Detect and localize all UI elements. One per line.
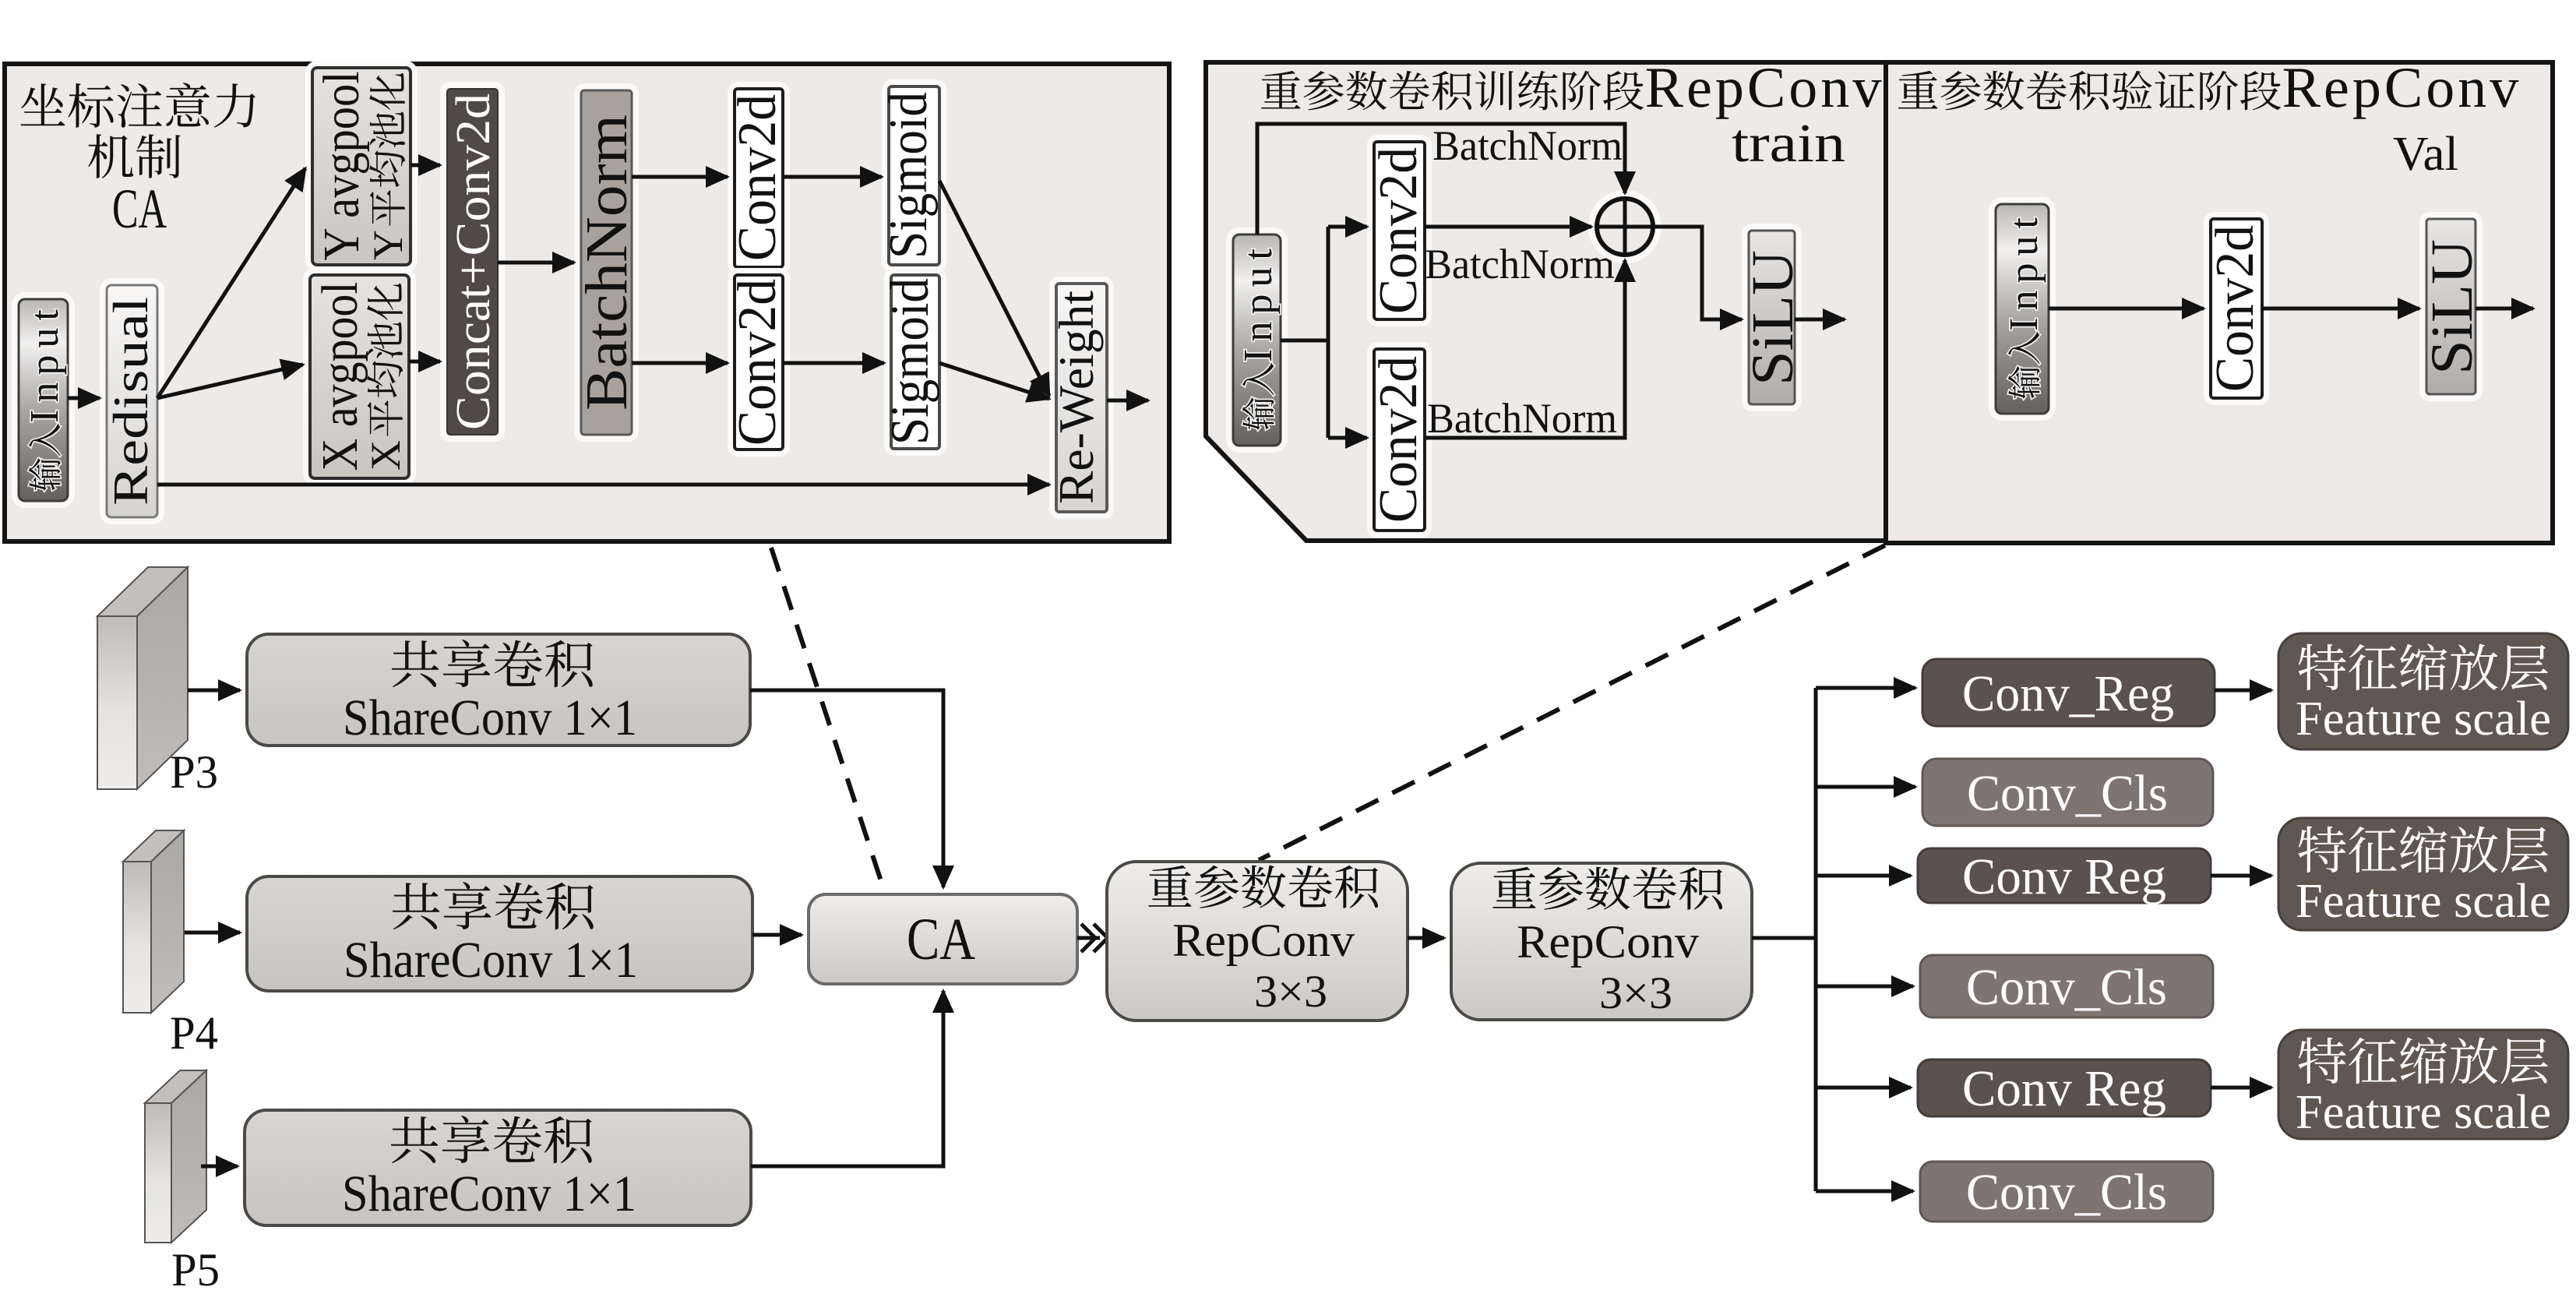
svg-text:BatchNorm: BatchNorm (1432, 122, 1623, 169)
svg-text:Re-Weight: Re-Weight (1048, 291, 1104, 504)
svg-text:Redisual: Redisual (103, 297, 158, 506)
box Conv2d bottom (CA panel) (731, 271, 787, 453)
svg-text:Y avgpool: Y avgpool (313, 72, 370, 261)
box Conv2d (val) (2207, 215, 2266, 402)
adder circle plus (1591, 193, 1658, 260)
wire Re-Weight output (1107, 399, 1148, 403)
box Conv2d bottom (train) (1370, 345, 1429, 534)
wire branch to Conv Reg 3 (1816, 1086, 1911, 1090)
wire ConvReg3 to Feature3 (2211, 1086, 2271, 1090)
box ShareConv 3 (245, 1110, 751, 1225)
box CA (809, 894, 1077, 984)
box RepConv 3x3 second (1451, 863, 1752, 1020)
wire branch to Conv_Cls 3 (1816, 1190, 1913, 1193)
svg-text:Conv2d: Conv2d (728, 94, 788, 261)
svg-text:Concat+Conv2d: Concat+Conv2d (447, 93, 500, 430)
wire Sigmoid top to Re-Weight (939, 181, 1049, 396)
box SiLU (train) (1745, 227, 1799, 408)
title 机制 (88, 134, 181, 178)
wire ShareConv3 to CA bottom (751, 991, 943, 1166)
wire branch to Conv Reg 2 (1816, 874, 1911, 878)
wire branch vertical (1327, 227, 1330, 438)
wire Conv2d top to adder (1425, 225, 1591, 229)
box Feature scale 1 (2278, 633, 2568, 749)
svg-text:BatchNorm: BatchNorm (1427, 395, 1617, 442)
box Feature scale 2 (2278, 818, 2568, 930)
svg-text:P3: P3 (170, 746, 218, 798)
svg-text:Val: Val (2393, 128, 2458, 181)
svg-text:P5: P5 (171, 1244, 220, 1296)
box RepConv 3x3 first (1107, 862, 1408, 1021)
wire P5 to ShareConv3 (201, 1165, 238, 1169)
svg-text:Conv_Cls: Conv_Cls (1966, 1164, 2167, 1221)
wire branch to Conv2d bottom (1328, 436, 1367, 440)
box BatchNorm (CA panel) (577, 86, 636, 439)
wire Input branch stub (1281, 339, 1328, 343)
wire CA to RepConv1 double chevron (1077, 936, 1100, 940)
wire X avgpool to Concat (409, 360, 440, 364)
wire RepConv1 to RepConv2 (1408, 936, 1444, 940)
wire BatchNorm to Conv2d top (632, 175, 728, 179)
box Concat+Conv2d (443, 85, 502, 439)
box ShareConv 1 (247, 634, 750, 746)
svg-text:ShareConv 1×1: ShareConv 1×1 (343, 689, 637, 746)
wire P3 to ShareConv1 (188, 689, 240, 693)
box Input (CA panel) (15, 295, 72, 505)
wire Sigmoid bottom to Re-Weight (939, 363, 1049, 399)
wire branch to Conv_Reg 1 (1816, 686, 1915, 690)
box Conv_Cls 3 (1920, 1162, 2213, 1222)
svg-text:Conv_Cls: Conv_Cls (1966, 959, 2167, 1016)
box Input (val) (1992, 200, 2053, 418)
wire trunk vertical (1814, 688, 1818, 1191)
svg-text:RepConv: RepConv (1517, 916, 1699, 968)
panel: RepConv train frame (1206, 62, 1886, 541)
box Conv2d top (CA panel) (731, 85, 787, 271)
box Re-Weight (1052, 280, 1111, 516)
wire Redisual to Y avgpool (157, 168, 305, 398)
svg-text:Feature scale: Feature scale (2296, 1086, 2551, 1139)
box Redisual (103, 281, 161, 521)
wire branch to Conv2d top (1328, 225, 1367, 229)
wire ShareConv2 to CA left (752, 933, 802, 937)
svg-text:RepConv: RepConv (1172, 915, 1355, 966)
box Feature scale 3 (2278, 1030, 2568, 1139)
svg-text:Conv2d: Conv2d (2205, 225, 2265, 392)
svg-text:Sigmoid: Sigmoid (880, 278, 940, 445)
wire ConvReg2 to Feature2 (2211, 874, 2271, 878)
svg-text:P4: P4 (170, 1007, 218, 1059)
wire BatchNorm to Conv2d bottom (632, 361, 728, 365)
svg-text:Conv2d: Conv2d (728, 279, 788, 446)
svg-text:Conv Reg: Conv Reg (1962, 848, 2166, 905)
svg-text:CA: CA (112, 178, 167, 240)
wire Conv2d top to Sigmoid top (783, 175, 882, 179)
svg-text:3×3: 3×3 (1254, 966, 1327, 1017)
box Sigmoid top (885, 83, 943, 269)
svg-text:Conv_Cls: Conv_Cls (1967, 765, 2168, 822)
title RepConv val line1 (1898, 69, 2518, 119)
svg-text:Sigmoid: Sigmoid (879, 92, 939, 259)
box Input (train) (1229, 231, 1284, 450)
wire P4 to ShareConv2 (185, 931, 240, 935)
wire Redisual bypass to Re-Weight (157, 483, 1049, 487)
box Sigmoid bottom (887, 271, 943, 453)
svg-text:Conv2d: Conv2d (1369, 356, 1429, 523)
box Conv_Cls 2 (1920, 955, 2213, 1017)
wire Y avgpool to Concat (411, 164, 440, 167)
svg-text:X avgpool: X avgpool (312, 282, 368, 471)
wire Conv2d bottom to Sigmoid bottom (783, 361, 884, 365)
wire SiLU output (1795, 318, 1845, 322)
svg-text:CA: CA (907, 907, 975, 972)
svg-text:Feature scale: Feature scale (2296, 693, 2551, 746)
wire branch to Conv_Cls 1 (1816, 785, 1915, 789)
wire RepConv2 output (1752, 936, 1816, 940)
wire adder to SiLU (1653, 227, 1742, 319)
box Conv2d top (train) (1370, 138, 1429, 323)
slab P5 (145, 1070, 206, 1243)
panel: RepConv Val frame (1886, 62, 2553, 543)
box X avgpool (306, 271, 413, 482)
svg-text:Conv_Reg: Conv_Reg (1962, 665, 2174, 722)
wire branch to Conv_Cls 2 (1816, 985, 1913, 989)
svg-text:SiLU: SiLU (2419, 239, 2485, 375)
box Conv Reg 3 (1918, 1059, 2211, 1116)
wire SiLU output (val) (2476, 307, 2533, 311)
box SiLU (val) (2423, 215, 2479, 398)
svg-text:BatchNorm: BatchNorm (1425, 241, 1615, 287)
box Y avgpool (308, 64, 414, 269)
panel: coordinate attention CA frame (5, 64, 1169, 541)
svg-text:Conv Reg: Conv Reg (1962, 1060, 2166, 1117)
dashed link train panel to RepConv (1259, 545, 1885, 860)
svg-text:Feature scale: Feature scale (2296, 875, 2551, 928)
box ShareConv 2 (247, 876, 752, 991)
dashed link CA panel to CA box (771, 548, 885, 893)
box Conv_Cls 1 (1922, 759, 2213, 826)
svg-text:BatchNorm: BatchNorm (574, 115, 640, 411)
wire Conv_Reg1 to Feature1 (2215, 689, 2271, 693)
svg-text:train: train (1732, 114, 1845, 174)
svg-text:ShareConv 1×1: ShareConv 1×1 (344, 932, 638, 989)
wire Input to Conv2d (val) (2049, 307, 2204, 311)
wire Input to Redisual (68, 397, 100, 400)
slab P4 (123, 830, 184, 1013)
wire ShareConv1 to CA top (750, 690, 943, 887)
svg-text:ShareConv 1×1: ShareConv 1×1 (342, 1165, 636, 1222)
box Conv Reg 2 (1918, 848, 2211, 903)
wire Conv2d bottom to adder (1425, 260, 1625, 438)
box Conv_Reg 1 (1922, 659, 2215, 726)
wire Concat to BatchNorm (498, 261, 574, 265)
wire Redisual to X avgpool (157, 365, 303, 398)
wire rail Input to adder top (1257, 124, 1625, 234)
svg-text:3×3: 3×3 (1599, 968, 1672, 1018)
svg-text:Conv2d: Conv2d (1369, 147, 1429, 314)
title RepConv train line1 (1261, 69, 1881, 119)
title 坐标注意力 (21, 83, 255, 128)
slab P3 (97, 567, 188, 789)
wire Conv2d to SiLU (val) (2262, 307, 2419, 311)
